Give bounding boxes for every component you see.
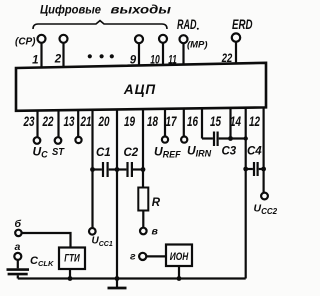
svg-text:выходы: выходы (111, 3, 172, 17)
svg-text:АЦП: АЦП (123, 82, 156, 97)
svg-text:б: б (15, 218, 22, 230)
svg-text:13: 13 (64, 113, 75, 129)
svg-text:в: в (152, 226, 159, 238)
svg-text:С2: С2 (124, 147, 139, 159)
svg-text:14: 14 (230, 113, 241, 129)
svg-text:2: 2 (54, 54, 62, 66)
svg-text:ST: ST (52, 146, 65, 158)
svg-text:г: г (130, 251, 136, 263)
svg-text:22: 22 (221, 53, 233, 65)
svg-text:10: 10 (150, 55, 160, 67)
svg-text:12: 12 (249, 113, 260, 129)
svg-text:ГТИ: ГТИ (64, 253, 80, 265)
svg-text:С3: С3 (222, 146, 237, 158)
svg-text:18: 18 (147, 113, 158, 129)
svg-text:1: 1 (32, 55, 38, 67)
svg-text:17: 17 (166, 113, 178, 129)
svg-text:С4: С4 (247, 146, 262, 158)
svg-text:11: 11 (168, 55, 177, 67)
svg-text:ИОН: ИОН (170, 251, 189, 263)
svg-text:21: 21 (80, 113, 92, 129)
svg-text:22: 22 (42, 113, 54, 129)
svg-text:а: а (15, 241, 21, 253)
svg-text:С1: С1 (96, 147, 111, 159)
svg-text:Цифровые: Цифровые (40, 3, 101, 17)
svg-text:9: 9 (130, 55, 137, 67)
svg-text:(СР): (СР) (15, 35, 36, 47)
svg-text:20: 20 (98, 113, 110, 129)
svg-text:RAD: RAD (177, 16, 197, 32)
svg-text:16: 16 (187, 113, 198, 129)
svg-text:19: 19 (124, 113, 135, 129)
svg-text:ERD: ERD (232, 16, 253, 32)
svg-text:R: R (152, 197, 161, 209)
svg-text:15: 15 (210, 113, 221, 129)
svg-text:(МР): (МР) (187, 39, 208, 50)
svg-text:23: 23 (23, 113, 35, 129)
